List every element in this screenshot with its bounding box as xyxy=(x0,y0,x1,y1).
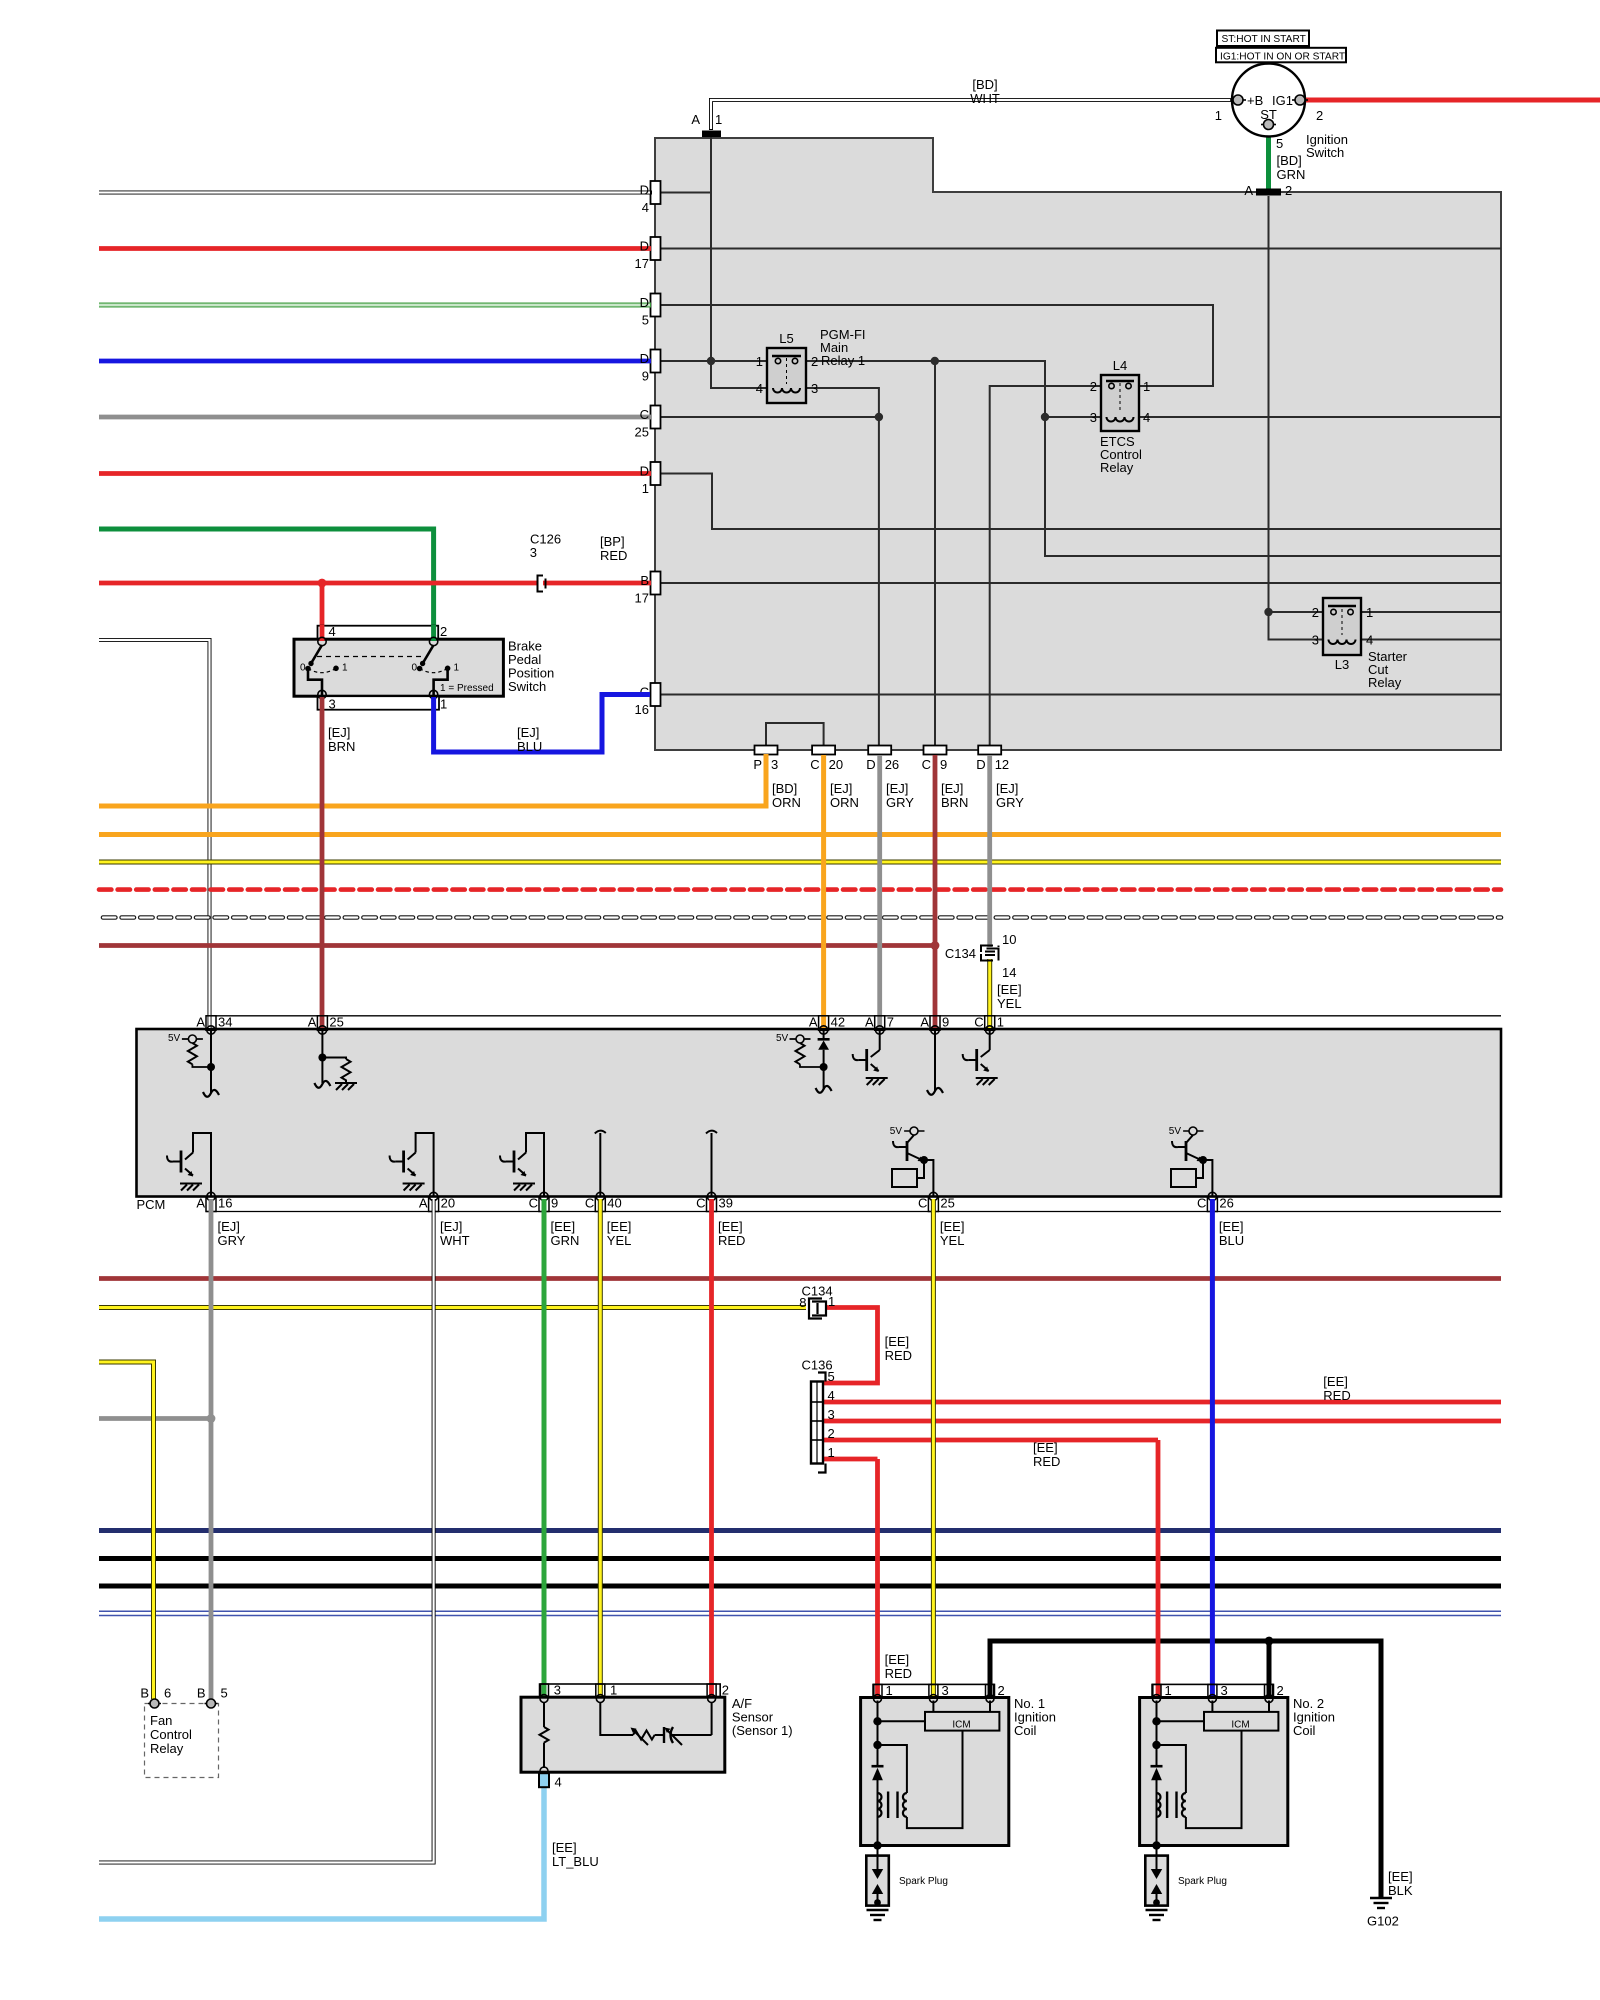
svg-text:Relay: Relay xyxy=(1368,675,1402,690)
connector C126 inline on red wire xyxy=(530,532,561,592)
wire black bus 1 xyxy=(99,1556,1501,1561)
svg-text:Control: Control xyxy=(150,1727,192,1742)
svg-text:GRY: GRY xyxy=(996,795,1024,810)
svg-text:5: 5 xyxy=(828,1369,835,1384)
svg-text:A: A xyxy=(920,1015,929,1030)
wire [EE] YEL from C40 to A/F pin 1 xyxy=(598,1199,603,1697)
svg-text:D: D xyxy=(640,464,649,479)
svg-text:9: 9 xyxy=(942,1015,949,1030)
svg-text:[BD]: [BD] xyxy=(972,77,997,92)
connector C134 (pin8/1) xyxy=(809,1299,826,1319)
node D26 on C25 row xyxy=(875,413,883,421)
svg-text:17: 17 xyxy=(635,591,649,606)
left edge connector labels xyxy=(635,183,649,718)
svg-text:3: 3 xyxy=(1090,410,1097,425)
svg-text:[EE]: [EE] xyxy=(607,1219,632,1234)
relay L4 ETCS Control Relay xyxy=(1090,358,1150,475)
svg-text:1 = Pressed: 1 = Pressed xyxy=(440,683,494,694)
connector D5 xyxy=(651,294,661,317)
svg-text:25: 25 xyxy=(940,1196,954,1211)
wire [EJ] ORN from C20 to A42 xyxy=(821,755,826,1028)
svg-text:10: 10 xyxy=(1002,932,1016,947)
svg-text:[EE]: [EE] xyxy=(1388,1869,1413,1884)
svg-text:Coil: Coil xyxy=(1014,1723,1037,1738)
PCM bottom connector strip line xyxy=(206,1211,1501,1213)
under-hood fuse/relay box xyxy=(655,138,1501,750)
wire D9 row to L5 pin 1 xyxy=(655,360,767,362)
PCM pin circles top xyxy=(207,1026,994,1034)
svg-text:[EE]: [EE] xyxy=(940,1219,965,1234)
svg-text:5V: 5V xyxy=(890,1126,903,1137)
wire red C136 pin 4 row xyxy=(823,1400,1501,1405)
wire red dashed bus xyxy=(99,887,1501,892)
A/F sensor body xyxy=(521,1697,725,1772)
svg-text:A: A xyxy=(308,1015,317,1030)
fan relay pin B5 xyxy=(205,1699,218,1708)
svg-text:Coil: Coil xyxy=(1293,1723,1316,1738)
svg-text:1: 1 xyxy=(1366,605,1373,620)
svg-text:BRN: BRN xyxy=(328,739,355,754)
svg-text:[BP]: [BP] xyxy=(600,534,625,549)
connector D1 xyxy=(651,462,661,485)
svg-text:PCM: PCM xyxy=(137,1197,166,1212)
svg-text:16: 16 xyxy=(218,1196,232,1211)
svg-text:L4: L4 xyxy=(1113,358,1127,373)
connector C134 (pin10/14) xyxy=(981,946,999,961)
wire C25 row xyxy=(655,416,879,418)
A/F sensor connector strip xyxy=(541,1684,721,1697)
ignition switch circle xyxy=(1232,64,1305,137)
svg-text:Fan: Fan xyxy=(150,1713,172,1728)
svg-text:IG1: IG1 xyxy=(1272,93,1293,108)
svg-text:D: D xyxy=(640,239,649,254)
switch 2 (pins 2-1) xyxy=(411,645,459,696)
svg-text:RED: RED xyxy=(885,1348,912,1363)
PCM top connector strip line xyxy=(206,1015,1501,1017)
svg-text:1: 1 xyxy=(1215,108,1222,123)
svg-text:2: 2 xyxy=(1285,183,1292,198)
node L4 pin3 column xyxy=(1041,413,1049,421)
svg-text:G102: G102 xyxy=(1367,1914,1399,1929)
A9 internal wire xyxy=(934,1030,936,1091)
brake switch bottom connector strip xyxy=(318,696,440,710)
svg-text:GRY: GRY xyxy=(218,1233,246,1248)
svg-text:4: 4 xyxy=(555,1775,562,1790)
wire L5 pin 3 to D26 xyxy=(806,388,879,745)
svg-text:9: 9 xyxy=(551,1196,558,1211)
connector D9 xyxy=(651,350,661,373)
connector D26 xyxy=(868,746,891,755)
svg-text:BLK: BLK xyxy=(1388,1883,1413,1898)
svg-text:[EJ]: [EJ] xyxy=(218,1219,240,1234)
svg-text:2: 2 xyxy=(1312,605,1319,620)
svg-text:6: 6 xyxy=(164,1686,171,1701)
svg-text:2: 2 xyxy=(811,354,818,369)
A/F sensor internal resistor xyxy=(540,1703,549,1769)
wire C9 vertical xyxy=(934,361,936,745)
connector A1 (black slot on box top) xyxy=(702,131,721,138)
wire A2 vertical to L3 pin 3 xyxy=(1269,196,1324,640)
wire to L4 pin 3 xyxy=(1045,416,1101,418)
wire [EJ] WHT from A20 xyxy=(99,1199,434,1863)
svg-text:25: 25 xyxy=(329,1015,343,1030)
svg-text:RED: RED xyxy=(885,1666,912,1681)
wire [EE] YEL from C134 pin 14 to C1 xyxy=(987,959,992,1028)
wire [EJ] BRN from brake pin 3 to A25 xyxy=(320,697,325,1028)
svg-text:42: 42 xyxy=(831,1015,845,1030)
svg-text:Switch: Switch xyxy=(1306,145,1344,160)
ignition IG1 terminal xyxy=(1292,95,1308,105)
wire [BD] GRN from ST to A2 xyxy=(1266,128,1271,189)
svg-text:A: A xyxy=(196,1015,205,1030)
wire D12 vertical to L4 pin 2 xyxy=(990,386,1101,745)
wire thin blue pair bus xyxy=(99,1610,1501,1612)
ignition ST terminal xyxy=(1261,120,1276,130)
svg-text:C: C xyxy=(696,1196,705,1211)
wire red branch to brake pedal pin 4 xyxy=(320,583,325,626)
wire maroon bus below PCM xyxy=(99,1276,1501,1281)
svg-text:L3: L3 xyxy=(1335,657,1349,672)
A42 internal 5V pull-up with diode xyxy=(790,1030,830,1090)
svg-text:5: 5 xyxy=(642,313,649,328)
node red junction at brake branch xyxy=(318,579,327,588)
ignition coil No.2 xyxy=(1140,1683,1288,1920)
wire [EJ] BLU from brake pin 1 to C16 xyxy=(434,695,650,753)
svg-text:4: 4 xyxy=(828,1388,835,1403)
svg-text:[BD]: [BD] xyxy=(772,781,797,796)
wire light-green bus into D5 xyxy=(99,303,651,308)
svg-text:C: C xyxy=(585,1196,594,1211)
svg-text:[EE]: [EE] xyxy=(997,982,1022,997)
svg-text:40: 40 xyxy=(607,1196,621,1211)
svg-text:[EE]: [EE] xyxy=(885,1334,910,1349)
PCM box xyxy=(137,1029,1502,1197)
svg-text:A: A xyxy=(1244,183,1253,198)
svg-text:1: 1 xyxy=(610,1683,617,1698)
svg-text:1: 1 xyxy=(642,481,649,496)
pin circles on box edges xyxy=(318,637,438,698)
svg-text:B: B xyxy=(197,1686,206,1701)
wire navy bus xyxy=(99,1528,1501,1533)
svg-text:Relay: Relay xyxy=(150,1741,184,1756)
wire white dashed bus xyxy=(103,915,1501,920)
svg-text:Switch: Switch xyxy=(508,679,546,694)
svg-text:1: 1 xyxy=(1143,379,1150,394)
brake pedal position switch top connector strip xyxy=(318,626,439,640)
svg-text:5V: 5V xyxy=(776,1033,789,1044)
fan relay pin B6 xyxy=(148,1699,161,1708)
C26 internal 5V driver xyxy=(1171,1131,1212,1197)
svg-text:8: 8 xyxy=(799,1295,806,1310)
wire orange bus 2 xyxy=(99,832,1501,837)
svg-text:3: 3 xyxy=(811,381,818,396)
wire A1 vertical inside box xyxy=(710,137,712,361)
svg-text:RED: RED xyxy=(1033,1454,1060,1469)
fan control relay dashed box xyxy=(145,1704,219,1778)
C9 internal transistor xyxy=(500,1133,544,1197)
wire white bus into D4 xyxy=(99,191,652,195)
connector D12 xyxy=(978,746,1001,755)
connector D4 xyxy=(651,181,661,204)
svg-text:A: A xyxy=(196,1196,205,1211)
A25 internal pull-down resistor xyxy=(322,1030,350,1083)
svg-text:3: 3 xyxy=(1312,633,1319,648)
wire red C136 pin 3 row xyxy=(823,1419,1501,1424)
svg-text:BLU: BLU xyxy=(517,739,542,754)
connector B17 xyxy=(651,572,661,595)
svg-text:[EE]: [EE] xyxy=(1323,1374,1348,1389)
wire dark green to brake pedal pin 2 xyxy=(99,529,434,626)
A34 internal 5V pull-up xyxy=(182,1030,211,1094)
wire D1 stepped row xyxy=(655,474,1501,530)
A20 internal transistor xyxy=(390,1133,434,1197)
svg-text:RED: RED xyxy=(1323,1388,1350,1403)
svg-text:[EE]: [EE] xyxy=(551,1219,576,1234)
node at D9/A1 xyxy=(707,357,715,365)
svg-text:14: 14 xyxy=(1002,965,1016,980)
svg-text:ORN: ORN xyxy=(772,795,801,810)
svg-text:ORN: ORN xyxy=(830,795,859,810)
C25 internal 5V driver xyxy=(892,1131,933,1197)
wire D5 row to L4 pin 1 xyxy=(655,305,1213,386)
svg-text:[EE]: [EE] xyxy=(718,1219,743,1234)
svg-text:39: 39 xyxy=(719,1196,733,1211)
svg-text:YEL: YEL xyxy=(607,1233,632,1248)
svg-text:4: 4 xyxy=(1143,410,1150,425)
PCM top connector slots xyxy=(206,1016,995,1031)
wire B17 row xyxy=(655,582,1501,584)
wire [BP] RED bus into B17 xyxy=(99,581,651,586)
svg-text:1: 1 xyxy=(997,1015,1004,1030)
svg-text:C: C xyxy=(640,407,649,422)
svg-text:BRN: BRN xyxy=(941,795,968,810)
wire black from No.2 coil pin 2 xyxy=(1267,1641,1272,1697)
PCM bottom connector slots xyxy=(206,1197,1217,1212)
svg-text:5: 5 xyxy=(221,1686,228,1701)
svg-text:1: 1 xyxy=(454,663,460,674)
relay L5 PGM-FI Main Relay 1 xyxy=(756,327,866,403)
svg-text:C: C xyxy=(918,1196,927,1211)
wire white bus to A34 xyxy=(99,640,210,1028)
svg-text:1: 1 xyxy=(828,1294,835,1309)
PCM top connector labels xyxy=(196,1015,1004,1030)
wire red stub into pin 4 xyxy=(320,625,325,641)
svg-text:3: 3 xyxy=(771,757,778,772)
connector C25 xyxy=(651,406,661,429)
svg-text:GRN: GRN xyxy=(1277,167,1306,182)
svg-text:4: 4 xyxy=(642,200,649,215)
svg-text:26: 26 xyxy=(885,757,899,772)
svg-text:34: 34 xyxy=(218,1015,232,1030)
node C9 on L5 pin2 row xyxy=(931,357,939,365)
label IG1:HOT IN ON OR START box xyxy=(1216,48,1346,63)
svg-text:RED: RED xyxy=(718,1233,745,1248)
PCM pin circles bottom xyxy=(207,1192,1217,1200)
svg-text:C: C xyxy=(1197,1196,1206,1211)
wire orange [BD] ORN bus to P3 xyxy=(99,754,766,806)
connector P3 xyxy=(755,746,778,755)
svg-text:5V: 5V xyxy=(168,1033,181,1044)
wire red from IG1 to right edge xyxy=(1304,98,1600,103)
svg-text:20: 20 xyxy=(441,1196,455,1211)
svg-text:20: 20 xyxy=(829,757,843,772)
svg-text:[EE]: [EE] xyxy=(1219,1219,1244,1234)
svg-text:[EJ]: [EJ] xyxy=(941,781,963,796)
svg-text:C: C xyxy=(974,1015,983,1030)
wire L3 pin 4 row xyxy=(1361,639,1501,641)
ignition coil No.1 xyxy=(861,1683,1009,1920)
svg-text:D: D xyxy=(640,295,649,310)
svg-text:3: 3 xyxy=(828,1407,835,1422)
C39 internal stub xyxy=(711,1133,713,1197)
wire [EJ] GRY from A16 to fan relay B5 xyxy=(209,1199,214,1699)
brake switch body xyxy=(294,639,503,696)
wire L5 pin 2 row to right edge xyxy=(806,361,1501,556)
wire red C136 pin 1 row xyxy=(823,1457,878,1462)
A16 internal transistor xyxy=(167,1133,211,1197)
svg-text:2: 2 xyxy=(1316,108,1323,123)
svg-text:2: 2 xyxy=(722,1683,729,1698)
svg-text:YEL: YEL xyxy=(997,996,1022,1011)
svg-text:1: 1 xyxy=(440,697,447,712)
svg-text:L5: L5 xyxy=(779,331,793,346)
svg-text:2: 2 xyxy=(1090,379,1097,394)
svg-text:D: D xyxy=(640,351,649,366)
svg-text:[EE]: [EE] xyxy=(1033,1440,1058,1455)
svg-text:4: 4 xyxy=(1366,633,1373,648)
ground G102 xyxy=(1370,1898,1392,1908)
ignition +B terminal xyxy=(1230,95,1246,105)
svg-text:[EE]: [EE] xyxy=(885,1652,910,1667)
svg-text:LT_BLU: LT_BLU xyxy=(552,1854,599,1869)
svg-text:RED: RED xyxy=(600,548,627,563)
svg-text:[EJ]: [EJ] xyxy=(830,781,852,796)
connector C16 xyxy=(651,683,661,706)
svg-text:26: 26 xyxy=(1219,1196,1233,1211)
wire yellow to fan relay B6 xyxy=(99,1362,154,1699)
svg-text:D: D xyxy=(866,757,875,772)
relay L3 Starter Cut Relay xyxy=(1312,598,1408,690)
svg-text:WHT: WHT xyxy=(970,91,1000,106)
svg-text:ST: ST xyxy=(1260,107,1277,122)
wire green stub into pin 2 xyxy=(431,625,436,641)
svg-text:[BD]: [BD] xyxy=(1277,153,1302,168)
svg-text:+B: +B xyxy=(1247,93,1263,108)
svg-text:9: 9 xyxy=(642,369,649,384)
svg-text:Relay 1: Relay 1 xyxy=(821,353,865,368)
svg-text:4: 4 xyxy=(756,381,763,396)
wire D4 row xyxy=(655,192,711,194)
wire red bus into D17 xyxy=(99,246,651,251)
wire [EJ] BRN from C9 to A9 xyxy=(933,755,938,1028)
svg-text:16: 16 xyxy=(635,702,649,717)
svg-text:A: A xyxy=(691,112,700,127)
wire [EE] RED from C134 pin 1 to C136 pin 5 xyxy=(824,1308,878,1384)
svg-text:B: B xyxy=(140,1686,149,1701)
node maroon junction xyxy=(931,941,940,950)
svg-text:7: 7 xyxy=(887,1015,894,1030)
svg-text:GRY: GRY xyxy=(886,795,914,810)
wire gray bus into C25 xyxy=(99,415,651,420)
svg-text:B: B xyxy=(640,573,649,588)
wire red bus into D1 xyxy=(99,471,651,476)
svg-text:P: P xyxy=(753,757,762,772)
connector C20 xyxy=(812,746,835,755)
svg-text:BLU: BLU xyxy=(1219,1233,1244,1248)
A7 internal transistor xyxy=(853,1030,888,1085)
connector D17 xyxy=(651,237,661,260)
svg-text:A: A xyxy=(865,1015,874,1030)
wire red down to No.2 coil pin 1 xyxy=(1156,1440,1161,1697)
svg-text:1: 1 xyxy=(715,112,722,127)
wire yellow bus xyxy=(99,860,1501,865)
wire blue bus into D9 xyxy=(99,359,651,364)
svg-text:C134: C134 xyxy=(945,946,976,961)
svg-text:YEL: YEL xyxy=(940,1233,965,1248)
wire red C136 pin 2 row xyxy=(823,1438,1158,1443)
wire red down to No.1 coil pin 1 xyxy=(875,1459,880,1697)
wire black bus 2 xyxy=(99,1584,1501,1589)
svg-text:A: A xyxy=(419,1196,428,1211)
svg-text:3: 3 xyxy=(329,697,336,712)
wire [EE] GRN from C9 to A/F pin 3 xyxy=(542,1199,547,1697)
svg-text:17: 17 xyxy=(635,256,649,271)
svg-text:3: 3 xyxy=(554,1683,561,1698)
wire to L5 pin 4 xyxy=(711,361,767,388)
svg-text:Relay: Relay xyxy=(1100,460,1134,475)
node gray junction xyxy=(207,1414,216,1423)
svg-text:0: 0 xyxy=(411,663,417,674)
svg-text:C: C xyxy=(922,757,931,772)
wire [EE] BLK from coils to G102 xyxy=(990,1641,1381,1897)
svg-text:1: 1 xyxy=(342,663,348,674)
svg-text:[EJ]: [EJ] xyxy=(440,1219,462,1234)
wire [EE] RED from C39 to A/F pin 2 xyxy=(709,1199,714,1697)
wire [BD] WHT from ignition +B to A1 (white outlined) xyxy=(711,100,1234,130)
svg-text:ST:HOT IN START: ST:HOT IN START xyxy=(1222,34,1306,45)
svg-text:C: C xyxy=(529,1196,538,1211)
svg-text:3: 3 xyxy=(530,545,537,560)
C40 internal stub xyxy=(599,1133,601,1197)
connector C9 xyxy=(924,746,947,755)
PCM bottom connector labels xyxy=(196,1196,1234,1211)
svg-text:D: D xyxy=(976,757,985,772)
svg-text:[EJ]: [EJ] xyxy=(886,781,908,796)
connector C136 xyxy=(811,1382,823,1464)
svg-text:9: 9 xyxy=(940,757,947,772)
svg-text:[EJ]: [EJ] xyxy=(328,725,350,740)
A/F sensor pin 4 xyxy=(540,1767,548,1775)
svg-text:0: 0 xyxy=(300,663,306,674)
svg-text:IG1:HOT IN ON OR START: IG1:HOT IN ON OR START xyxy=(1220,51,1345,62)
wire L3 pin 1 row xyxy=(1361,611,1501,613)
svg-text:(Sensor 1): (Sensor 1) xyxy=(732,1723,793,1738)
svg-text:C: C xyxy=(810,757,819,772)
svg-text:2: 2 xyxy=(440,624,447,639)
svg-text:GRN: GRN xyxy=(551,1233,580,1248)
wire P3-C20 jumper xyxy=(766,723,824,745)
svg-text:12: 12 xyxy=(995,757,1009,772)
svg-text:D: D xyxy=(640,183,649,198)
svg-text:1: 1 xyxy=(756,354,763,369)
switch 1 (pins 4-3) xyxy=(300,645,348,696)
label ST:HOT IN START box xyxy=(1217,31,1309,47)
C1 internal transistor xyxy=(963,1030,998,1085)
svg-text:[EE]: [EE] xyxy=(552,1840,577,1855)
wire [EE] YEL from C25 to No.1 coil pin 3 xyxy=(931,1199,936,1697)
svg-text:4: 4 xyxy=(329,624,336,639)
bottom edge connector slots xyxy=(755,746,1002,755)
